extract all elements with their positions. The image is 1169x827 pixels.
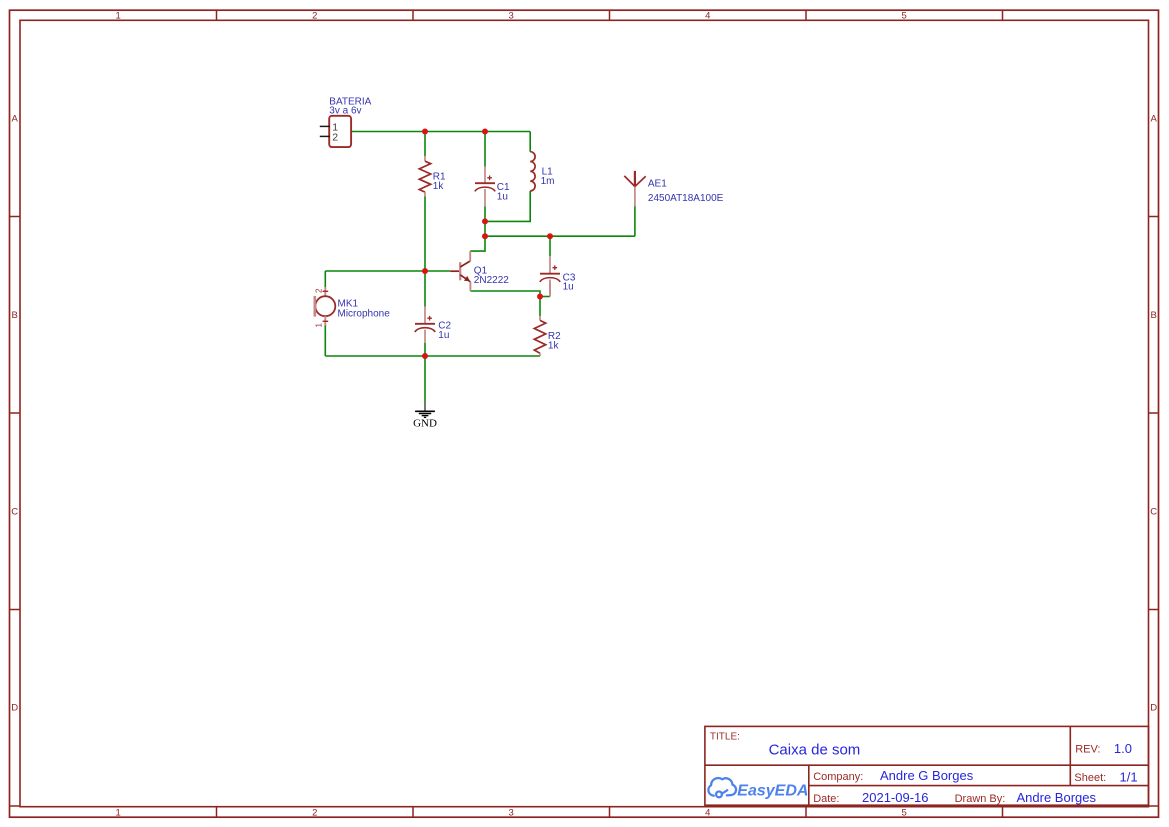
svg-text:1k: 1k (433, 181, 445, 192)
svg-text:A: A (1151, 114, 1158, 125)
inductor L1 (530, 152, 535, 191)
antenna AE1 (624, 171, 645, 206)
node base (422, 268, 428, 274)
svg-text:Andre G Borges: Andre G Borges (880, 768, 974, 783)
svg-text:Drawn By:: Drawn By: (955, 793, 1006, 805)
label BATERIA (329, 97, 371, 117)
frame ruler letters right (1150, 114, 1157, 714)
svg-text:C: C (11, 507, 18, 518)
label R2 1k (548, 331, 561, 351)
node VCC/C1 (482, 129, 488, 135)
svg-text:D: D (1150, 703, 1157, 714)
connector pin numbers (332, 121, 338, 143)
resistor R2 (534, 316, 545, 356)
svg-text:EasyEDA: EasyEDA (737, 783, 808, 800)
node C3 top (547, 233, 553, 239)
wire C3 bottom pin lower (549, 283, 551, 297)
frame ruler ticks right (1149, 217, 1160, 807)
svg-text:3v a 6v: 3v a 6v (329, 105, 361, 116)
svg-text:Andre Borges: Andre Borges (1017, 790, 1097, 805)
wire base junction to bottom junction through C2 (424, 271, 426, 307)
svg-text:1u: 1u (438, 330, 449, 341)
frame ruler ticks top (217, 10, 1003, 20)
svg-text:Date:: Date: (813, 793, 839, 805)
svg-text:Microphone: Microphone (338, 308, 391, 319)
svg-text:B: B (1151, 310, 1157, 321)
label C3 1u (563, 272, 576, 292)
node emitter/R2 (537, 294, 543, 300)
label MK1 Microphone (338, 299, 391, 320)
svg-text:2: 2 (332, 132, 338, 144)
microphone MK1 (315, 287, 336, 328)
wire C3 top drop (549, 236, 551, 256)
svg-text:5: 5 (902, 808, 907, 819)
svg-text:1u: 1u (497, 191, 508, 202)
frame ruler letters left (11, 114, 18, 714)
wire R1 column top (424, 132, 426, 157)
svg-text:2450AT18A100E: 2450AT18A100E (648, 193, 724, 204)
frame ruler numbers bottom (116, 808, 907, 819)
capacitor C1 (475, 167, 495, 207)
svg-text:2021-09-16: 2021-09-16 (862, 790, 929, 805)
wire collector node to antenna (485, 235, 635, 237)
svg-text:3: 3 (509, 808, 514, 819)
svg-text:REV:: REV: (1075, 744, 1100, 756)
svg-text:B: B (12, 310, 18, 321)
svg-text:1u: 1u (563, 282, 574, 293)
svg-text:1/1: 1/1 (1120, 769, 1138, 784)
svg-text:2N2222: 2N2222 (474, 275, 509, 286)
wire bottom junction to GND (424, 356, 426, 402)
node collector (482, 233, 488, 239)
svg-text:2: 2 (312, 808, 317, 819)
label R1 1k (433, 172, 446, 192)
wire mic bottom drop (324, 326, 326, 357)
node ground rail (422, 353, 428, 359)
svg-text:TITLE:: TITLE: (710, 732, 740, 743)
svg-text:3: 3 (509, 11, 514, 22)
ground GND (413, 402, 437, 430)
svg-text:C: C (1150, 507, 1157, 518)
wire R2 top drop (539, 297, 541, 317)
label AE1 2450AT18A100E (648, 179, 724, 204)
resistor R1 (419, 156, 430, 196)
svg-text:1k: 1k (548, 340, 560, 351)
wire L1 bottom (485, 191, 530, 222)
frame ruler ticks left (10, 217, 21, 807)
EasyEDA logo cloud (708, 778, 736, 797)
node VCC/R1 (422, 129, 428, 135)
wire C1 bottom to node (484, 206, 486, 236)
node L1/C1 (482, 218, 488, 224)
capacitor C2 (415, 307, 435, 344)
wire collector jog (470, 236, 485, 251)
svg-text:4: 4 (705, 11, 710, 22)
wire emitter to R2 top (470, 291, 540, 297)
svg-text:AE1: AE1 (648, 179, 667, 190)
svg-text:2: 2 (315, 288, 324, 293)
wire base net (325, 270, 450, 272)
title block outline (705, 726, 1149, 805)
wire antenna drop (634, 206, 636, 236)
svg-text:4: 4 (705, 808, 710, 819)
svg-text:Company:: Company: (813, 771, 863, 783)
svg-text:Sheet:: Sheet: (1074, 772, 1106, 784)
svg-text:A: A (12, 114, 19, 125)
wire C1 top (484, 132, 486, 167)
svg-text:2: 2 (312, 11, 317, 22)
label C1 1u (497, 182, 510, 202)
transistor Q1 2N2222 (450, 251, 470, 291)
svg-text:Caixa de som: Caixa de som (769, 742, 861, 759)
frame ruler ticks bottom (217, 807, 1003, 818)
wire L1 top drop (529, 132, 531, 152)
wire bottom net (325, 355, 540, 357)
connector P1 BATERIA body (329, 116, 351, 147)
junction node dots (422, 129, 553, 360)
svg-text:D: D (11, 703, 18, 714)
wire R1 bottom to base junction (424, 196, 426, 271)
label C2 1u (438, 321, 451, 341)
wire R2 node to C3 bottom (540, 296, 550, 298)
connector pin 2 (320, 135, 330, 137)
wire mic top drop (324, 271, 326, 287)
svg-text:5: 5 (902, 11, 907, 22)
svg-text:1m: 1m (541, 176, 555, 187)
svg-text:1: 1 (315, 323, 324, 328)
label Q1 2N2222 (474, 266, 509, 287)
wire battery to L1 top (VCC net) (351, 131, 530, 133)
frame ruler numbers top (116, 11, 907, 22)
svg-text:1: 1 (116, 808, 121, 819)
capacitor C3 (540, 256, 560, 296)
connector pin 1 (320, 125, 330, 127)
label L1 1m (541, 167, 555, 187)
svg-text:1.0: 1.0 (1114, 741, 1132, 756)
svg-text:GND: GND (413, 418, 437, 430)
svg-text:1: 1 (116, 11, 121, 22)
